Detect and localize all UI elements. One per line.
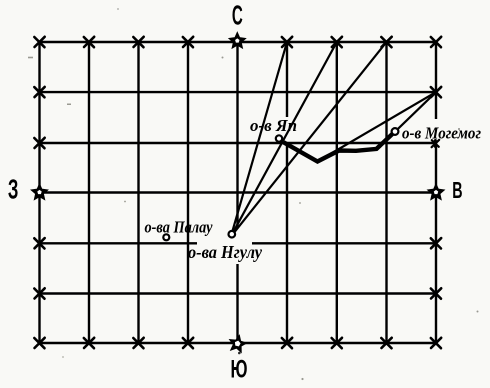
grid vertical line x=237.5 upper segment <box>236 42 238 228</box>
svg-text:Ю: Ю <box>230 356 247 383</box>
grid horizontal line y=243.3 left segment <box>40 242 198 244</box>
east border junction mark (arrow-like cross) <box>432 140 440 147</box>
crosses on west border <box>34 87 44 299</box>
svg-text:о-в Яп: о-в Яп <box>250 116 297 135</box>
north star <box>230 33 245 48</box>
west star <box>32 185 47 200</box>
grid vertical line x=436 (east border) lower segment <box>435 142 437 343</box>
svg-text:С: С <box>232 0 243 31</box>
grid horizontal line y=293.5 <box>40 292 437 294</box>
grid vertical line x=436 (east border) upper segment <box>435 42 437 119</box>
crosses on south border <box>34 338 441 348</box>
crosses on east border <box>431 87 441 299</box>
svg-text:о-ва Нгулу: о-ва Нгулу <box>188 242 262 262</box>
grid horizontal line y=343 (south border) <box>40 342 437 344</box>
grid vertical line x=89 <box>88 42 90 343</box>
island circle Palau <box>163 234 169 240</box>
grid vertical line x=138.5 <box>137 42 139 343</box>
svg-text:о-ва Палау: о-ва Палау <box>145 217 213 236</box>
speck lower left <box>62 356 64 358</box>
speck above south label <box>238 352 241 355</box>
svg-text:З: З <box>8 173 19 205</box>
crosses on north border <box>34 37 441 47</box>
grid vertical line x=336.8 <box>336 42 338 343</box>
bearing line from Ngulu to top cross 3 <box>235 42 387 232</box>
speck right of path <box>458 128 460 130</box>
bearing line from Ngulu to top cross 1 <box>233 42 288 231</box>
grid vertical line x=386.5 <box>385 42 387 343</box>
grid vertical line x=287 upper segment <box>286 42 288 117</box>
grid vertical line x=188 <box>187 42 189 343</box>
grid vertical line x=287 lower segment <box>286 142 288 343</box>
island circle Mogemog <box>392 128 399 135</box>
bearing line from path vertex to east cross <box>318 92 437 161</box>
east star <box>428 185 443 200</box>
typhoon path (thick polyline) <box>283 134 392 162</box>
faint scan specks <box>28 57 479 381</box>
grid horizontal line y=143 <box>40 142 437 144</box>
grid horizontal line y=42 (north border) <box>40 41 437 43</box>
grid horizontal line y=192.5 (middle) <box>40 191 437 193</box>
bearing line from Mogemog to east cross <box>398 92 436 129</box>
speck top left area <box>117 8 119 10</box>
svg-text:В: В <box>452 179 462 204</box>
bearing line from Ngulu to top cross 2 <box>234 42 337 231</box>
island circle Ngulu <box>229 231 236 238</box>
svg-text:о-в Могемог: о-в Могемог <box>402 124 481 143</box>
grid horizontal line y=243.3 right segment <box>252 242 436 244</box>
grid horizontal line y=92.1 <box>40 91 437 93</box>
grid vertical line x=237.5 lower segment <box>236 264 238 343</box>
grid vertical line x=39.5 (west border) <box>38 42 40 343</box>
island circle Yap <box>276 135 282 141</box>
south star <box>228 334 247 352</box>
